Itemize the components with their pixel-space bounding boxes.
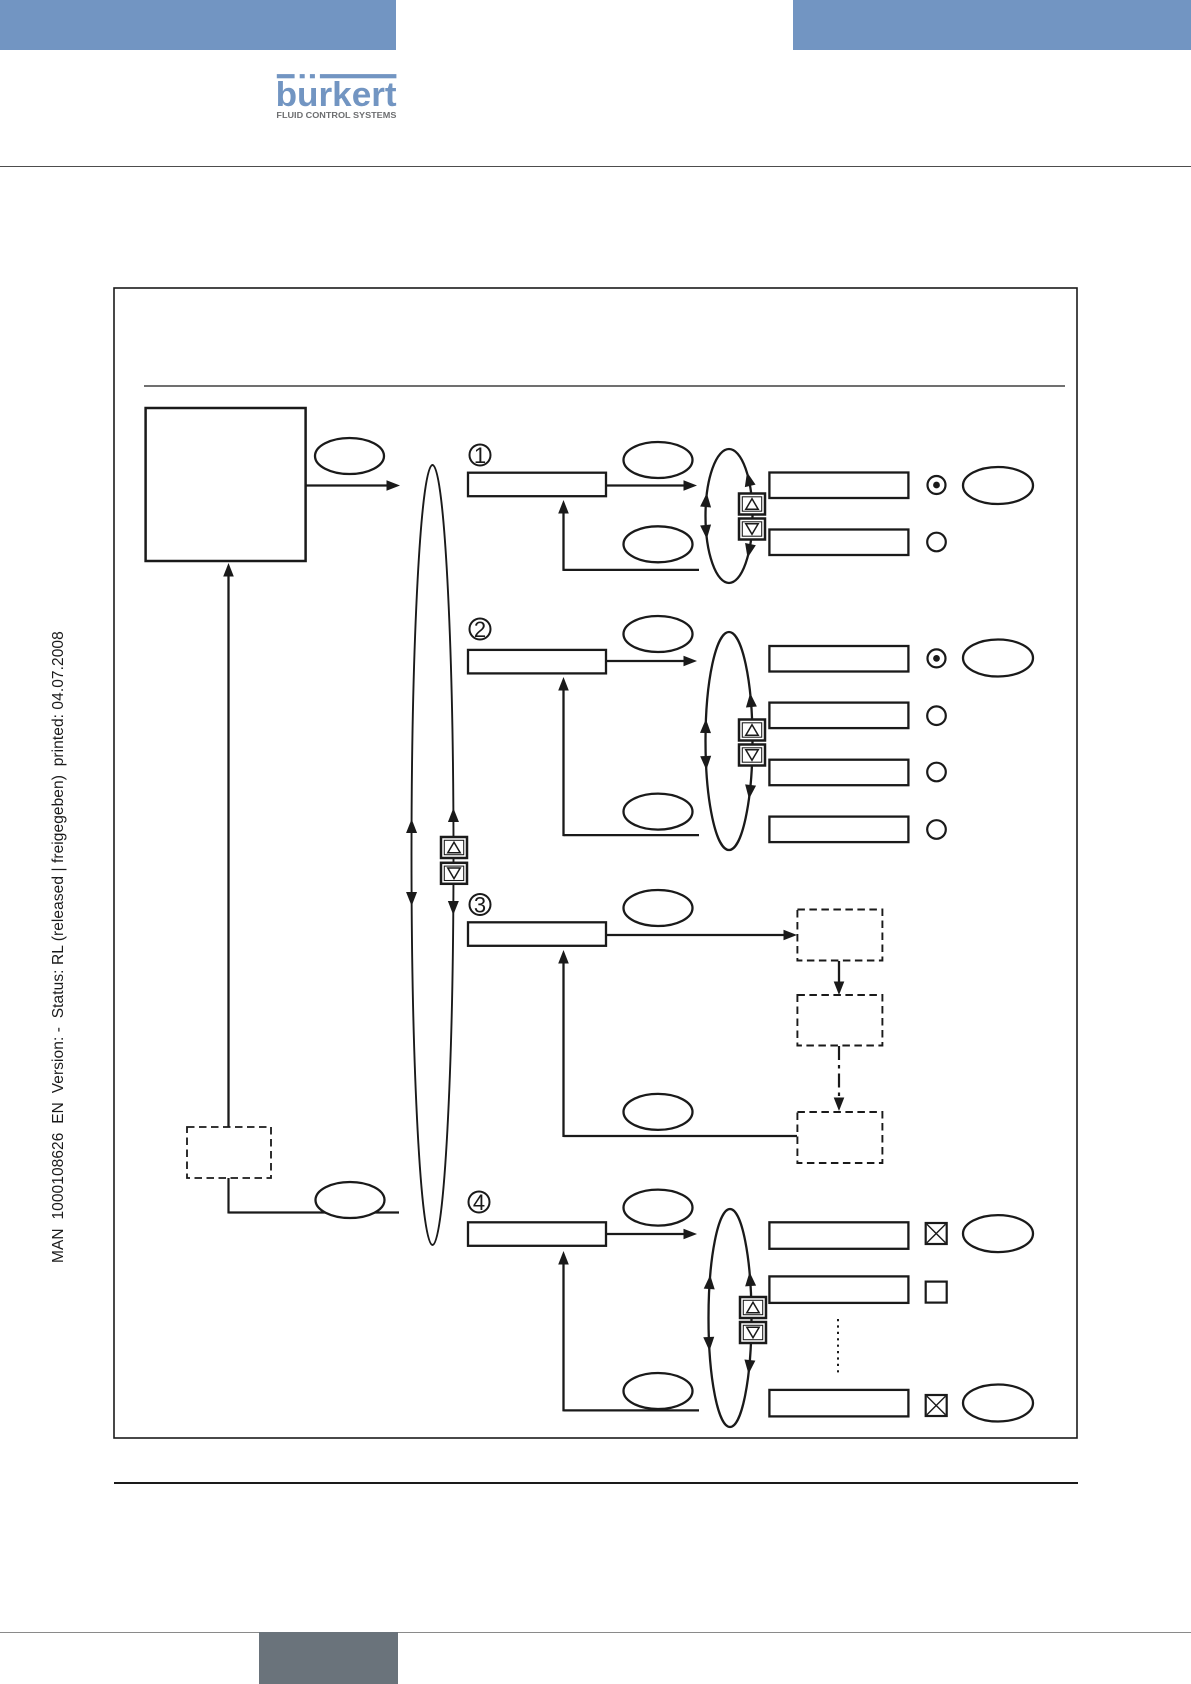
loop1 up button	[739, 494, 765, 515]
option box 2c	[769, 760, 908, 786]
dashed key box	[187, 1127, 271, 1178]
loop ellipse 2	[706, 632, 753, 850]
return arrow 4 line	[562, 1263, 564, 1411]
logo umlaut dash 2	[310, 74, 315, 78]
option box 2a	[769, 646, 908, 672]
return line 4 horizontal	[564, 1409, 700, 1411]
loop1 arrow left up	[700, 493, 712, 508]
loop4 arrow right up	[744, 1272, 756, 1287]
tall loop up button	[441, 837, 467, 858]
loop2 arrow right down	[744, 784, 757, 799]
menu box 3	[468, 922, 606, 946]
stem below dashed box	[227, 1178, 229, 1214]
label ellipse 1 bottom	[624, 526, 693, 562]
arrow from main box head	[387, 480, 401, 491]
radio 2a selected	[928, 649, 946, 667]
header rule	[0, 166, 1191, 167]
svg-text:2: 2	[474, 617, 486, 642]
label ellipse 3 bottom	[624, 1094, 693, 1130]
label ellipse 1 right	[963, 467, 1033, 504]
radio 1a selected	[928, 476, 946, 494]
option box 4a	[769, 1222, 908, 1249]
radio 2b	[927, 706, 946, 725]
arrow into 3c head	[834, 1098, 845, 1112]
dashdot connector 3	[838, 1046, 840, 1100]
dashed box 3a	[797, 910, 882, 961]
loop ellipse 1	[706, 449, 753, 583]
svg-text:3: 3	[474, 893, 486, 918]
return line 3 horizontal	[564, 1135, 798, 1137]
label ellipse 2 right	[963, 640, 1033, 677]
return arrow to main box head	[223, 563, 234, 577]
badge 3	[470, 893, 491, 918]
footer rule	[114, 1482, 1078, 1484]
tall loop arrow right down	[448, 901, 459, 915]
menu box 4	[468, 1222, 606, 1246]
tall loop arrow left up	[406, 819, 417, 833]
tall loop arrow right up	[448, 808, 459, 822]
loop4 arrow left down	[703, 1337, 715, 1352]
loop4 arrow left up	[704, 1275, 716, 1290]
radio 2d	[927, 820, 946, 839]
return arrow 3 head	[558, 950, 569, 964]
arrow from main box line	[307, 484, 389, 486]
svg-text:1: 1	[474, 443, 486, 468]
loop ellipse 4	[709, 1209, 752, 1427]
option box 1b	[769, 530, 908, 556]
radio 2c	[927, 763, 946, 782]
loop2 arrow left down	[700, 756, 712, 770]
loop4 down button	[740, 1322, 766, 1343]
loop1 arrow right up	[742, 471, 756, 487]
return arrow 3 line	[562, 962, 564, 1137]
arrow menu 2 line	[607, 660, 686, 662]
menu box 1	[468, 473, 606, 497]
arrow menu 1 head	[684, 480, 698, 491]
loop4 arrow right down	[743, 1359, 755, 1374]
side text	[50, 563, 68, 1263]
return arrow 2 line	[562, 689, 564, 836]
badge 2	[470, 617, 491, 642]
tall loop down button	[441, 863, 467, 884]
loop2 arrow left up	[700, 719, 711, 733]
arrow 3a to 3b head	[834, 982, 845, 996]
main display box	[146, 408, 306, 561]
diagram frame	[114, 288, 1077, 1438]
tall menu loop ellipse	[412, 465, 454, 1245]
logo umlaut dash 1	[300, 74, 305, 78]
loop2 down button	[739, 745, 765, 766]
checkbox 4b	[926, 1282, 947, 1303]
option box 1a	[769, 473, 908, 499]
label ellipse 4 right top	[963, 1215, 1033, 1252]
option box 4c	[769, 1390, 908, 1417]
loop4 up button	[740, 1297, 766, 1318]
menu box 2	[468, 650, 606, 674]
bottom return line	[229, 1211, 400, 1213]
loop2 up button	[739, 720, 765, 741]
label ellipse 2 top	[624, 616, 693, 652]
radio 1b	[927, 533, 946, 552]
label ellipse 4 top	[624, 1190, 693, 1226]
loop1 down button	[739, 519, 765, 540]
checkbox 4c checked	[926, 1395, 947, 1416]
label ellipse 3 top	[624, 890, 693, 926]
label ellipse 4 bottom	[624, 1373, 693, 1409]
label ellipse main	[315, 438, 384, 474]
label ellipse 2 bottom	[624, 794, 693, 830]
option box 2d	[769, 817, 908, 843]
svg-text:4: 4	[473, 1190, 485, 1215]
return arrow to main box line	[227, 575, 229, 1127]
checkbox 4a checked	[926, 1223, 947, 1244]
logo top bar segment	[277, 74, 295, 78]
arrow menu 3 line	[607, 934, 786, 936]
footer thin line	[0, 1632, 1191, 1633]
badge 1	[470, 443, 491, 468]
label ellipse 4 right bottom	[963, 1385, 1033, 1422]
return arrow 1 head	[558, 500, 569, 514]
badge 4	[469, 1190, 490, 1215]
header bar right	[793, 0, 1191, 50]
dashed box 3b	[797, 995, 882, 1046]
return line 1 horizontal	[564, 569, 700, 571]
tall loop arrow left down	[406, 892, 417, 906]
arrow menu 1 line	[607, 484, 686, 486]
return arrow 2 head	[558, 677, 569, 691]
arrow menu 4 line	[607, 1233, 686, 1235]
burkert logo	[270, 68, 405, 124]
header bar left	[0, 0, 396, 50]
return arrow 4 head	[558, 1251, 569, 1265]
return arrow 1 line	[562, 512, 564, 571]
option box 4b	[769, 1276, 908, 1303]
arrow 3a to 3b line	[838, 961, 840, 983]
loop2 arrow right up	[745, 693, 757, 708]
label ellipse bottom left	[316, 1182, 385, 1218]
footer gray block	[259, 1632, 398, 1684]
loop1 arrow left down	[700, 525, 712, 540]
dashed box 3c	[797, 1112, 882, 1163]
title rule	[144, 385, 1065, 387]
label ellipse 1 top	[624, 442, 693, 478]
logo top bar long segment	[320, 74, 397, 78]
arrow menu 2 head	[684, 656, 698, 667]
option box 2b	[769, 703, 908, 729]
loop1 arrow right down	[742, 543, 756, 559]
return line 2 horizontal	[564, 834, 700, 836]
arrow menu 3 head	[784, 930, 798, 941]
dotted connector 4	[837, 1319, 839, 1374]
arrow menu 4 head	[684, 1229, 698, 1240]
